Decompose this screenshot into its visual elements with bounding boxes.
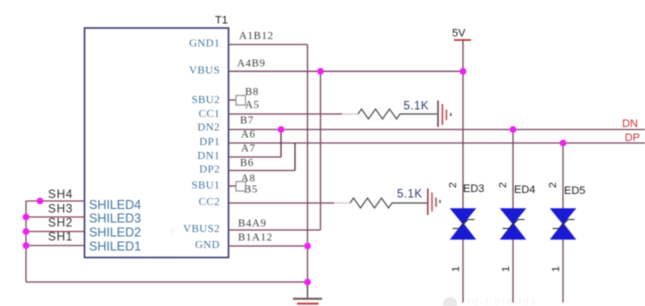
svg-text:B7: B7 [240, 115, 254, 127]
resistor 5.1K upper (CC1) [358, 109, 437, 119]
svg-text:ld-t bld lds: ld-t bld lds [468, 297, 538, 306]
wire DP2 pin [229, 170, 296, 172]
wire ED4 bottom vertical [512, 239, 514, 303]
svg-text:1: 1 [500, 266, 512, 272]
svg-text:A6: A6 [241, 129, 256, 141]
ground (sideways) at lower resistor [428, 189, 440, 216]
svg-text:2: 2 [497, 182, 509, 188]
wire ED5 bottom vertical [562, 239, 564, 303]
resistor lead light segment CC2 [334, 202, 350, 204]
svg-text:B8: B8 [245, 86, 259, 98]
svg-text:1: 1 [550, 266, 562, 272]
svg-text:A5: A5 [245, 99, 260, 111]
svg-text:B4A9: B4A9 [238, 218, 267, 230]
ground symbol bottom [293, 282, 322, 304]
svg-text:1: 1 [450, 266, 462, 272]
junction GND pin [304, 243, 311, 250]
no-connect square SBU2 [236, 96, 246, 106]
junction DN2 join [278, 126, 285, 133]
TVS diode ED5 [551, 209, 575, 239]
svg-text:ED3: ED3 [463, 183, 484, 195]
svg-text:5V: 5V [452, 28, 466, 40]
svg-text:5.1K: 5.1K [404, 101, 429, 113]
watermark smudges bottom [120, 225, 538, 306]
pin stub SBU2 [229, 99, 237, 101]
svg-text:SHILED3: SHILED3 [89, 212, 141, 226]
svg-text:DN2: DN2 [197, 122, 220, 134]
svg-text:SBU1: SBU1 [192, 180, 221, 192]
svg-text:ED4: ED4 [514, 184, 535, 196]
power symbol 5V [452, 28, 471, 72]
junction SH2 [23, 228, 30, 235]
svg-text:DN: DN [622, 118, 638, 130]
svg-text:B6: B6 [240, 157, 254, 169]
wire ED3 top vertical (VBUS to diode) [462, 71, 464, 209]
wire SH4 pin [26, 200, 85, 202]
wire left shield bus vertical x=26 [25, 201, 27, 282]
wire vertical DN1-DN2 join x=281 [280, 130, 282, 158]
svg-text:A4B9: A4B9 [237, 58, 266, 70]
wire ED4 top vertical (DN to diode) [512, 130, 514, 210]
wire vertical VBUS rail x=320.5 [320, 71, 322, 230]
wire DP1 / net DP horizontal [229, 142, 645, 144]
wire DN1 pin [229, 156, 282, 158]
wire SH3 pin [26, 216, 85, 218]
svg-text:DN1: DN1 [197, 150, 220, 162]
svg-text:2: 2 [447, 182, 459, 188]
wire CC2 pin to resistor [229, 202, 335, 204]
junction SH1 [23, 242, 30, 249]
resistor 5.1K lower (CC2) [350, 198, 428, 208]
svg-text:CC2: CC2 [199, 196, 220, 208]
wire ED5 top vertical (DP to diode) [562, 143, 564, 210]
wire vertical DP2-DP1 join x=295 [294, 143, 296, 171]
svg-text:SBU2: SBU2 [192, 94, 221, 106]
svg-text:SH3: SH3 [48, 202, 73, 216]
wire SH2 pin [26, 231, 85, 233]
svg-text:~~~ ~~~: ~~~ ~~~ [120, 256, 175, 266]
connector T1 body [85, 28, 229, 258]
wire CC1 pin to resistor R? [229, 113, 343, 115]
wire ED3 bottom vertical [462, 239, 464, 303]
svg-text:2: 2 [547, 182, 559, 188]
svg-text:CC1: CC1 [199, 108, 220, 120]
ground (sideways) at upper resistor [438, 101, 451, 128]
svg-text:VBUS2: VBUS2 [183, 223, 220, 235]
junction DN ED4 [510, 126, 517, 133]
svg-text:SH4: SH4 [48, 187, 73, 201]
svg-text:SHILED2: SHILED2 [89, 226, 141, 240]
svg-text:DP1: DP1 [199, 136, 220, 148]
svg-text:DP2: DP2 [199, 164, 220, 176]
wire VBUS pin to 5V rail [229, 70, 464, 72]
TVS diode ED4 [501, 209, 525, 239]
svg-text:A1B12: A1B12 [239, 30, 274, 42]
svg-text:ED5: ED5 [564, 185, 585, 197]
wire GND1 pin to corner [229, 44, 308, 46]
junction DP ED5 [560, 140, 567, 147]
wire vertical GND rail x=307.5 [307, 45, 309, 290]
svg-text:B5: B5 [244, 184, 258, 196]
pin stub SBU1 [229, 185, 237, 187]
svg-text:v: v [170, 225, 175, 236]
junction bottom ground [304, 279, 311, 286]
svg-text:SHILED1: SHILED1 [89, 240, 141, 254]
svg-text:VBUS: VBUS [189, 65, 220, 77]
svg-text:B1A12: B1A12 [238, 232, 273, 244]
svg-text:GND1: GND1 [189, 38, 220, 50]
svg-text:A7: A7 [241, 143, 256, 155]
wire DN2 / net DN horizontal [229, 129, 645, 131]
svg-text:DP: DP [625, 132, 640, 144]
svg-text:T1: T1 [215, 15, 228, 27]
no-connect square SBU1 [236, 182, 246, 192]
wire GND pin to rail [229, 245, 308, 247]
wire VBUS2 pin to VBUS rail [229, 229, 321, 231]
resistor lead light segment CC1 [342, 113, 358, 115]
junction VBUS rail [317, 68, 324, 75]
wire bottom ground run [26, 281, 308, 283]
junction VBUS 5V rail [460, 68, 467, 75]
svg-text:GND: GND [195, 239, 220, 251]
junction SH3 [23, 214, 30, 221]
junction SH4 [37, 198, 44, 205]
wire SH1 pin [26, 245, 85, 247]
svg-text:SHILED4: SHILED4 [89, 198, 141, 212]
svg-text:5.1K: 5.1K [397, 189, 422, 201]
TVS diode ED3 [451, 209, 475, 239]
